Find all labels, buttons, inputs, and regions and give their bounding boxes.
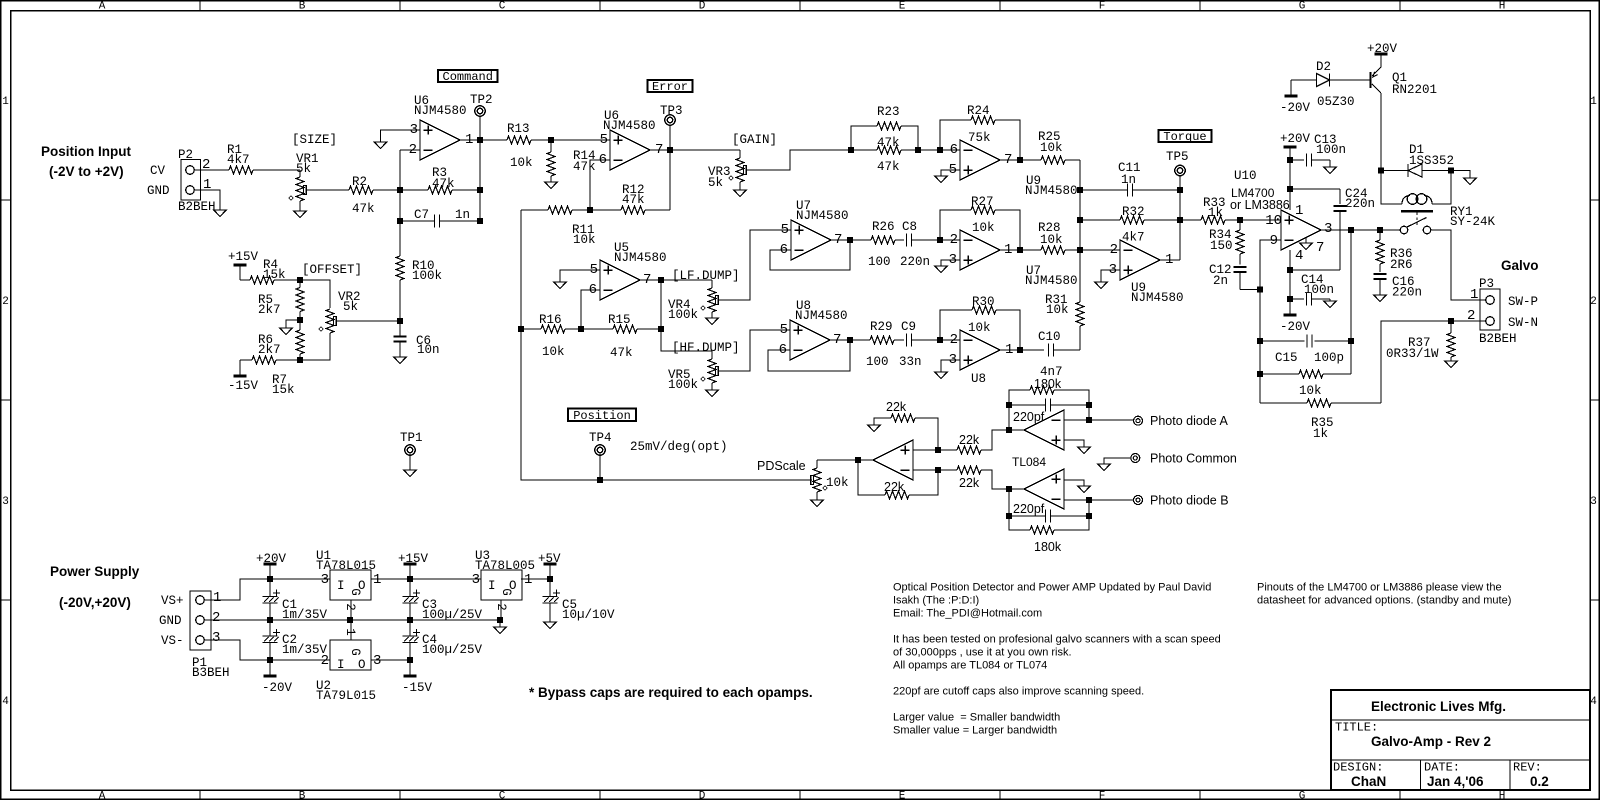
svg-text:R30: R30 xyxy=(972,295,995,309)
dashed relay actuator xyxy=(1416,213,1418,227)
svg-text:7: 7 xyxy=(1316,240,1324,256)
op-amp U6 (error) xyxy=(599,109,664,170)
svg-text:C: C xyxy=(499,791,506,800)
resistor R25 xyxy=(1038,130,1080,164)
svg-text:NJM4580: NJM4580 xyxy=(1025,274,1078,288)
label [OFFSET] xyxy=(302,263,362,277)
ground at U5 pin5 xyxy=(554,282,566,289)
op-amp U10 xyxy=(1230,169,1332,264)
title block REV label xyxy=(1513,761,1542,775)
op-amp U9 (first half) xyxy=(949,140,1078,198)
wire diff - input xyxy=(913,467,957,473)
node R6-R7 xyxy=(297,357,303,363)
svg-text:-20V: -20V xyxy=(1280,320,1311,334)
svg-text:R27: R27 xyxy=(971,195,994,209)
op-amp TL084 B xyxy=(1024,469,1064,509)
svg-text:SY-24K: SY-24K xyxy=(1450,215,1496,229)
svg-text:R29: R29 xyxy=(870,320,893,334)
wire amp B feedback columns xyxy=(1006,486,1089,516)
svg-text:10k: 10k xyxy=(1040,141,1063,155)
wire -20V rail to U2 xyxy=(267,657,330,663)
resistor 22k feedback xyxy=(858,460,938,499)
capacitor C11 xyxy=(1080,161,1180,197)
capacitor C24 xyxy=(1334,187,1376,270)
power -20V rail xyxy=(262,660,293,695)
photo diode B connector xyxy=(1134,494,1229,508)
label box Position xyxy=(568,409,636,424)
svg-text:5k: 5k xyxy=(343,300,358,314)
svg-text:SW-N: SW-N xyxy=(1508,316,1538,330)
svg-text:1m/35V: 1m/35V xyxy=(282,608,328,622)
svg-text:22k: 22k xyxy=(959,476,980,490)
wire VR2 wiper to node xyxy=(336,320,400,322)
svg-text:Position: Position xyxy=(573,409,631,423)
wire U7 output xyxy=(831,237,871,243)
svg-text:10k: 10k xyxy=(826,476,849,490)
svg-text:I: I xyxy=(337,658,345,672)
label [GAIN] xyxy=(732,133,777,147)
svg-text:D: D xyxy=(699,791,706,800)
capacitor C4 xyxy=(403,620,483,660)
potentiometer VR5 xyxy=(668,351,718,392)
wire amp A - input xyxy=(1064,417,1134,423)
svg-text:O: O xyxy=(358,658,366,672)
svg-text:-20V: -20V xyxy=(1280,101,1311,115)
capacitor C7 xyxy=(397,208,480,228)
svg-text:Isakh (The :P:D:I): Isakh (The :P:D:I) xyxy=(893,595,979,607)
svg-text:B2BEH: B2BEH xyxy=(1479,332,1517,346)
wire R4 to node xyxy=(274,277,303,283)
wire U10 pin1 to C24 xyxy=(1290,188,1340,190)
svg-text:TP4: TP4 xyxy=(589,431,612,445)
svg-text:75k: 75k xyxy=(968,131,991,145)
svg-text:9: 9 xyxy=(1270,233,1278,249)
resistor 10k feedback xyxy=(1257,370,1351,398)
svg-text:180k: 180k xyxy=(1034,377,1062,391)
svg-text:+20V: +20V xyxy=(1367,42,1398,56)
svg-text:G: G xyxy=(1299,791,1306,800)
wire U3 out to +5V xyxy=(521,576,553,582)
connector P3 xyxy=(1467,277,1538,346)
potentiometer VR4 xyxy=(668,280,718,322)
svg-text:GND: GND xyxy=(147,184,170,198)
resistor R32 xyxy=(1080,205,1180,245)
svg-text:G: G xyxy=(348,588,362,596)
wire U6 pin3 to ground xyxy=(381,130,421,142)
wire U7b pin3 to ground xyxy=(941,260,960,266)
test point TP3 xyxy=(660,104,683,150)
resistor 22k to amp B xyxy=(957,466,1024,490)
ground at C13 xyxy=(1324,167,1336,174)
ground at U10 pin7 xyxy=(1300,238,1312,250)
power +20V rail xyxy=(256,552,287,582)
resistor R26 xyxy=(868,220,904,269)
svg-text:1: 1 xyxy=(343,628,357,636)
wire P2 pin2 to R1 xyxy=(194,169,229,171)
capacitor C8 xyxy=(900,220,940,269)
test point TP4 xyxy=(589,431,612,480)
ground at U6 pin3 xyxy=(374,142,386,149)
label box Error xyxy=(648,80,693,94)
border row numbers 1-4 xyxy=(2,96,1597,708)
svg-text:It has been tested on profesio: It has been tested on profesional galvo … xyxy=(893,634,1221,646)
svg-text:2n: 2n xyxy=(1213,274,1228,288)
ground at U7b pin3 xyxy=(935,266,947,273)
svg-text:TA78L015: TA78L015 xyxy=(316,559,376,573)
wire P1 pin2 GND rail xyxy=(204,617,503,623)
op-amp U8 (first half) xyxy=(779,299,848,360)
regulator U3 xyxy=(472,549,535,611)
wire U6 error output xyxy=(650,147,740,153)
ground at P2 pin1 xyxy=(214,210,226,217)
wire U1 out to +15V rail xyxy=(371,576,481,582)
wire U2 pin1 to GND xyxy=(350,620,352,640)
title block date xyxy=(1427,774,1484,789)
resistor R36 xyxy=(1376,230,1413,272)
svg-text:3: 3 xyxy=(472,572,480,588)
svg-text:Email: The_PDI@Hotmail.com: Email: The_PDI@Hotmail.com xyxy=(893,608,1042,620)
wire amp B + to ground xyxy=(1064,480,1084,486)
wire VR4 wiper to U7 pin5 xyxy=(718,230,791,300)
wire U8 feedback loop xyxy=(768,340,850,371)
svg-text:100k: 100k xyxy=(668,378,698,392)
wire U10 output xyxy=(1321,227,1400,233)
wire VR5 wiper to U8 pin5 xyxy=(718,330,790,371)
capacitor C15 xyxy=(1257,335,1354,366)
wire +15V to R4 xyxy=(240,279,250,281)
svg-text:NJM4580: NJM4580 xyxy=(795,309,848,323)
resistor R4 xyxy=(250,258,286,284)
svg-text:10µ/10V: 10µ/10V xyxy=(562,608,615,622)
title block DATE label xyxy=(1424,761,1460,775)
op-amp U8 (second half) xyxy=(949,330,1014,386)
potentiometer VR3 xyxy=(708,150,746,190)
svg-text:1k: 1k xyxy=(1208,206,1223,220)
svg-text:1k: 1k xyxy=(1313,427,1328,441)
resistor R13 xyxy=(507,122,533,170)
title block rev xyxy=(1530,774,1549,789)
svg-text:NJM4580: NJM4580 xyxy=(796,209,849,223)
capacitor C3 xyxy=(403,579,483,622)
svg-text:0R33/1W: 0R33/1W xyxy=(1386,347,1439,361)
svg-text:[HF.DUMP]: [HF.DUMP] xyxy=(672,341,740,355)
potentiometer VR2 xyxy=(319,290,361,333)
capacitor C9 xyxy=(899,320,940,369)
svg-text:3: 3 xyxy=(321,572,329,588)
svg-text:Power Supply: Power Supply xyxy=(50,564,140,579)
svg-text:100: 100 xyxy=(866,355,889,369)
wire R12 to error output xyxy=(669,150,671,210)
svg-text:Command: Command xyxy=(443,70,493,84)
potentiometer PDScale xyxy=(757,459,849,500)
ground at amp A + xyxy=(1078,447,1090,454)
svg-text:ChaN: ChaN xyxy=(1351,774,1386,789)
svg-text:RN2201: RN2201 xyxy=(1392,83,1437,97)
svg-text:B: B xyxy=(299,791,306,800)
wire U7 feedback loop xyxy=(770,240,850,270)
wire amp A feedback columns xyxy=(1006,405,1089,433)
resistor R3 xyxy=(400,166,480,194)
wire P1 pin1 to +20V rail xyxy=(204,579,270,600)
svg-text:2k7: 2k7 xyxy=(258,343,281,357)
notes text block xyxy=(893,582,1221,737)
wire U10 pin9 xyxy=(1260,240,1281,290)
wire position feedback column xyxy=(518,210,812,483)
svg-text:2: 2 xyxy=(409,142,417,158)
power -15V at R7 xyxy=(228,360,259,393)
wire U5 out to VR4 xyxy=(661,279,712,281)
svg-text:TP1: TP1 xyxy=(400,431,423,445)
diode D1 xyxy=(1381,143,1454,177)
resistor 180k A xyxy=(1009,377,1089,405)
svg-text:NJM4580: NJM4580 xyxy=(1025,184,1078,198)
resistor R5 xyxy=(258,280,304,320)
svg-text:47k: 47k xyxy=(432,177,455,191)
svg-text:4: 4 xyxy=(2,696,9,708)
svg-text:220pf are cutoff caps also imp: 220pf are cutoff caps also improve scann… xyxy=(893,686,1144,698)
notes pinouts text xyxy=(1257,582,1511,607)
wire relay coil right xyxy=(1432,168,1454,205)
wire switch to P3 pin1 xyxy=(1431,230,1486,300)
resistor R15 xyxy=(581,313,661,360)
svg-text:Photo Common: Photo Common xyxy=(1150,452,1237,466)
svg-text:C: C xyxy=(499,0,506,12)
svg-text:47k: 47k xyxy=(573,160,596,174)
wire U9b pin3 to ground xyxy=(1101,270,1120,282)
svg-text:47k: 47k xyxy=(610,346,633,360)
svg-text:10k: 10k xyxy=(542,345,565,359)
svg-text:F: F xyxy=(1099,0,1106,12)
svg-text:+5V: +5V xyxy=(538,552,561,566)
svg-text:100µ/25V: 100µ/25V xyxy=(422,643,483,657)
wire R35 to P3 pin2 xyxy=(1381,318,1486,403)
op-amp U7 (first half) xyxy=(780,199,849,260)
wire U8 output xyxy=(830,337,870,343)
svg-text:of 30,000pps , use it at you o: of 30,000pps , use it at you own risk. xyxy=(893,647,1072,659)
svg-text:+15V: +15V xyxy=(228,250,259,264)
wire U5 output xyxy=(640,277,664,283)
wire photo common to ground xyxy=(1104,458,1131,464)
svg-text:datasheet for advanced options: datasheet for advanced options. (standby… xyxy=(1257,595,1511,607)
svg-text:1: 1 xyxy=(524,572,532,588)
svg-text:-15V: -15V xyxy=(402,681,433,695)
svg-text:+20V: +20V xyxy=(1280,132,1311,146)
wire pin9 column down xyxy=(1259,290,1261,404)
power -20V at D2 xyxy=(1280,80,1311,115)
svg-text:220pf: 220pf xyxy=(1013,410,1045,424)
svg-text:3: 3 xyxy=(1324,221,1332,237)
svg-text:22k: 22k xyxy=(884,480,905,494)
wire U9 pin5 to ground xyxy=(941,170,960,176)
resistor R11 xyxy=(521,206,596,247)
ground at U9 pin5 xyxy=(935,176,947,183)
svg-text:[OFFSET]: [OFFSET] xyxy=(302,263,362,277)
wire node to U6 pin2 xyxy=(400,149,420,151)
svg-text:G: G xyxy=(499,588,513,596)
wire U2 out to -15V rail xyxy=(371,657,413,663)
heading Galvo xyxy=(1501,258,1539,273)
label [HF.DUMP] xyxy=(672,341,740,355)
note bypass caps xyxy=(529,685,813,700)
svg-text:B3BEH: B3BEH xyxy=(192,666,230,680)
svg-text:VS-: VS- xyxy=(161,634,184,648)
svg-text:TP2: TP2 xyxy=(470,93,493,107)
photo common connector xyxy=(1131,452,1237,466)
svg-text:TP3: TP3 xyxy=(660,104,683,118)
wire diff + input xyxy=(913,447,957,453)
resistor R27 xyxy=(940,195,1020,250)
wire U7b output xyxy=(1000,247,1041,253)
svg-text:1: 1 xyxy=(1590,96,1597,108)
wire VR3 wiper up xyxy=(746,150,851,170)
svg-text:R15: R15 xyxy=(608,313,631,327)
svg-text:* Bypass caps are required to: * Bypass caps are required to each opamp… xyxy=(529,685,813,700)
title block frame xyxy=(1331,690,1590,790)
wire U8b pin3 to ground xyxy=(941,360,960,372)
svg-text:-15V: -15V xyxy=(228,379,259,393)
resistor R23 lower xyxy=(851,146,918,174)
svg-text:E: E xyxy=(899,791,906,800)
heading Power Supply xyxy=(50,564,140,610)
svg-text:G: G xyxy=(1299,0,1306,12)
wire U9 output xyxy=(1000,157,1041,163)
svg-text:3: 3 xyxy=(373,653,381,669)
wire relay coil left xyxy=(1378,168,1402,205)
svg-text:TITLE:: TITLE: xyxy=(1335,721,1378,735)
svg-text:Smaller value = Larger bandwid: Smaller value = Larger bandwidth xyxy=(893,725,1057,737)
resistor R12 xyxy=(590,183,670,214)
svg-text:0.2: 0.2 xyxy=(1530,774,1549,789)
svg-text:10k: 10k xyxy=(1046,303,1069,317)
connector P1 xyxy=(159,590,230,680)
svg-text:1: 1 xyxy=(1470,287,1478,303)
capacitor C16 xyxy=(1374,274,1423,300)
svg-text:R32: R32 xyxy=(1122,205,1145,219)
wire amp B - input xyxy=(1064,497,1134,503)
svg-text:Photo diode A: Photo diode A xyxy=(1150,414,1229,428)
svg-text:A: A xyxy=(99,791,106,800)
resistor 22k to amp A xyxy=(957,430,1024,454)
svg-text:5: 5 xyxy=(780,322,788,338)
relay switch contacts xyxy=(1400,218,1431,234)
label TL084 xyxy=(1012,455,1046,469)
svg-text:[SIZE]: [SIZE] xyxy=(292,133,337,147)
op-amp U7 (second half) xyxy=(949,230,1078,288)
capacitor C12 xyxy=(1209,263,1247,290)
svg-text:Photo diode B: Photo diode B xyxy=(1150,494,1229,508)
ground at C16 xyxy=(1374,295,1386,302)
wire offset node to VR2 top xyxy=(300,280,330,308)
capacitor C2 xyxy=(263,620,328,660)
svg-text:100k: 100k xyxy=(668,308,698,322)
svg-text:D2: D2 xyxy=(1316,60,1331,74)
transistor Q1 xyxy=(1371,55,1438,171)
svg-text:DATE:: DATE: xyxy=(1424,761,1460,775)
wire C9 to U8b pin2 xyxy=(937,337,960,343)
svg-text:100: 100 xyxy=(868,255,891,269)
svg-text:22k: 22k xyxy=(886,400,907,414)
ground at R14 xyxy=(545,182,557,189)
svg-text:1: 1 xyxy=(2,96,9,108)
ground at photo common xyxy=(1098,464,1110,471)
svg-text:VS+: VS+ xyxy=(161,594,184,608)
resistor R33 xyxy=(1180,196,1240,224)
svg-text:NJM4580: NJM4580 xyxy=(414,104,467,118)
capacitor C14 xyxy=(1290,273,1334,306)
wire U6 output xyxy=(460,137,507,143)
svg-text:6: 6 xyxy=(950,142,958,158)
svg-text:(-20V,+20V): (-20V,+20V) xyxy=(59,595,131,610)
capacitor 220pf B xyxy=(1006,502,1092,523)
wire +20V rail column xyxy=(1287,147,1293,210)
svg-text:Torque: Torque xyxy=(1163,130,1206,144)
power -20V at U10 xyxy=(1280,315,1311,334)
label box Torque xyxy=(1159,130,1212,144)
op-amp TL084 diff xyxy=(873,440,913,480)
ground at VR5 xyxy=(706,390,718,397)
node R16-R15 xyxy=(578,326,584,332)
svg-text:3: 3 xyxy=(212,630,220,646)
svg-text:2: 2 xyxy=(321,653,329,669)
svg-text:R2: R2 xyxy=(352,175,367,189)
svg-text:1SS352: 1SS352 xyxy=(1409,154,1454,168)
svg-text:B: B xyxy=(299,0,306,12)
svg-text:10: 10 xyxy=(1265,213,1282,229)
svg-text:DESIGN:: DESIGN: xyxy=(1333,761,1383,775)
ground at PDScale xyxy=(811,500,823,507)
svg-text:PDScale: PDScale xyxy=(757,459,806,473)
svg-text:3: 3 xyxy=(410,122,418,138)
test point TP1 xyxy=(400,431,423,470)
ground at TP1 xyxy=(404,470,416,477)
title block designer xyxy=(1351,774,1386,789)
label [SIZE] xyxy=(292,133,337,147)
svg-text:4: 4 xyxy=(1295,248,1303,264)
svg-text:Electronic Lives Mfg.: Electronic Lives Mfg. xyxy=(1371,699,1506,714)
svg-text:R16: R16 xyxy=(539,313,562,327)
svg-text:A: A xyxy=(99,0,106,12)
svg-text:2: 2 xyxy=(343,603,357,611)
ground at C14 xyxy=(1324,301,1336,308)
ground at 22k xyxy=(868,425,880,432)
svg-text:Pinouts of the LM4700 or LM388: Pinouts of the LM4700 or LM3886 please v… xyxy=(1257,582,1502,594)
svg-text:2k7: 2k7 xyxy=(258,303,281,317)
svg-text:100k: 100k xyxy=(412,269,442,283)
svg-text:5: 5 xyxy=(781,222,789,238)
wire C12 to pin9 column xyxy=(1240,287,1263,293)
svg-text:2: 2 xyxy=(950,332,958,348)
svg-text:All opamps are TL084 or TL074: All opamps are TL084 or TL074 xyxy=(893,660,1047,672)
ground at VR4 xyxy=(706,318,718,325)
svg-text:C9: C9 xyxy=(901,320,916,334)
diode D2 (zener) xyxy=(1291,60,1355,109)
svg-text:Jan 4,'06: Jan 4,'06 xyxy=(1427,774,1484,789)
title block company xyxy=(1371,699,1506,714)
resistor R7 xyxy=(240,356,300,397)
test point TP5 xyxy=(1166,150,1189,190)
resistor R29 xyxy=(866,320,904,369)
wire +20V rail to U1 xyxy=(270,578,330,580)
wire U6 feedback column xyxy=(477,140,483,224)
svg-text:REV:: REV: xyxy=(1513,761,1542,775)
svg-text:R23: R23 xyxy=(877,105,900,119)
svg-text:5: 5 xyxy=(600,132,608,148)
wire R2 to node xyxy=(373,189,400,191)
svg-text:1: 1 xyxy=(1295,203,1303,219)
svg-text:4: 4 xyxy=(1590,696,1597,708)
power +15V at R4 xyxy=(228,250,259,280)
ground at R37 xyxy=(1445,361,1457,368)
